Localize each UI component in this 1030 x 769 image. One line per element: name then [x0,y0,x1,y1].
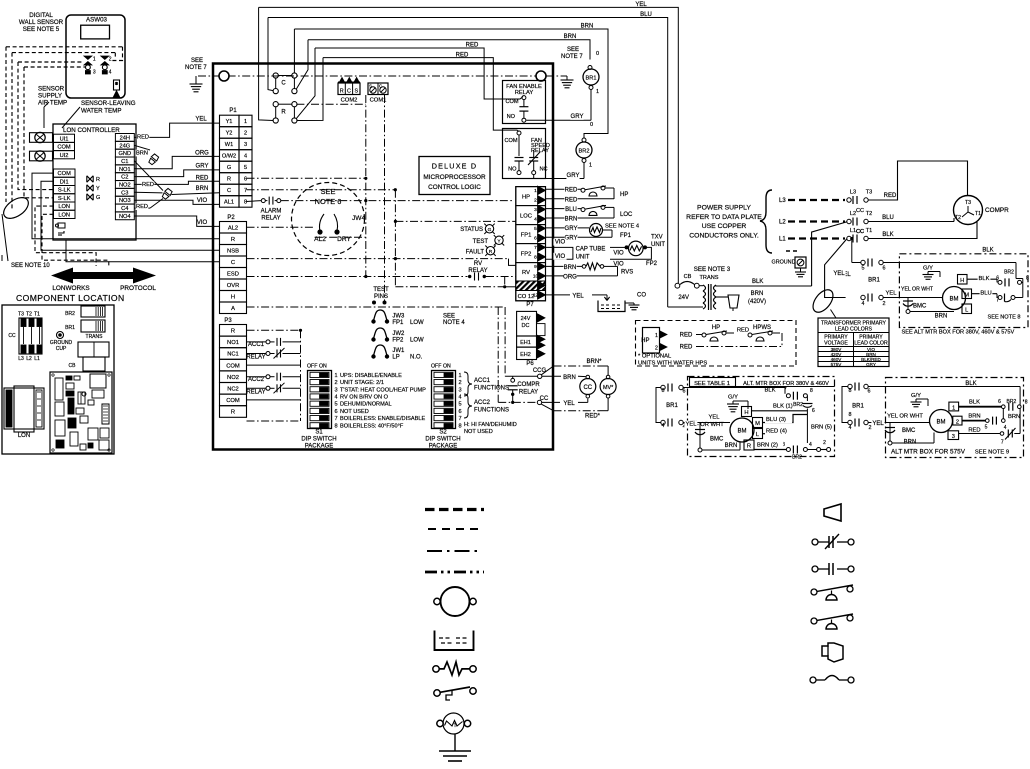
svg-text:6: 6 [534,236,537,242]
svg-text:BMC: BMC [710,436,724,442]
svg-text:FP2: FP2 [521,251,532,257]
svg-text:6: 6 [335,409,338,415]
svg-text:BRN: BRN [725,443,738,449]
svg-text:1: 1 [459,373,462,379]
svg-text:W1: W1 [225,142,233,148]
svg-text:Y2: Y2 [226,131,233,137]
svg-text:ACC2: ACC2 [474,400,491,406]
svg-text:RED: RED [565,197,578,203]
svg-text:RED: RED [196,175,209,181]
svg-text:P2: P2 [227,215,235,221]
svg-text:S-LK: S-LK [58,188,71,194]
svg-text:4: 4 [862,301,865,307]
svg-text:RED: RED [884,193,897,199]
svg-text:S: S [354,89,358,95]
svg-text:2: 2 [956,419,959,425]
svg-text:COM1: COM1 [370,98,387,104]
svg-text:YEL: YEL [195,117,207,123]
svg-text:GRY: GRY [571,114,584,120]
svg-text:DC: DC [522,323,530,329]
svg-text:NO4: NO4 [119,214,131,220]
svg-text:BR2: BR2 [793,402,803,408]
svg-text:ESD: ESD [227,272,239,278]
svg-text:2: 2 [883,301,886,307]
svg-text:R: R [231,329,235,335]
svg-text:YEL OR WHT: YEL OR WHT [901,287,934,293]
svg-text:4: 4 [244,154,247,160]
svg-text:M: M [964,292,969,298]
svg-text:AL2: AL2 [228,226,238,232]
svg-text:A: A [231,306,235,312]
svg-text:C: C [379,84,382,89]
svg-text:RED*: RED* [585,413,601,419]
svg-text:ALT. MTR BOX FOR 380V & 460V: ALT. MTR BOX FOR 380V & 460V [743,381,829,387]
svg-text:4: 4 [1004,425,1007,431]
svg-text:NO: NO [507,114,516,120]
svg-text:(420V): (420V) [748,299,766,305]
svg-text:CC: CC [583,385,592,391]
svg-text:LON: LON [58,204,70,210]
svg-text:CO: CO [637,293,646,299]
svg-text:3: 3 [952,434,955,440]
svg-text:LEAD COLOR: LEAD COLOR [854,341,888,347]
svg-text:BRN: BRN [565,216,578,222]
svg-text:JW1: JW1 [392,348,405,354]
svg-text:CC: CC [540,396,549,402]
svg-text:CB: CB [684,274,692,280]
svg-text:FAN ENABLE: FAN ENABLE [506,84,542,90]
svg-text:NO1: NO1 [227,340,239,346]
svg-text:P3: P3 [224,318,232,324]
svg-text:TEST: TEST [473,239,489,245]
svg-text:NC2: NC2 [227,387,239,393]
svg-text:C2: C2 [121,175,128,181]
svg-text:CONTROL LOGIC: CONTROL LOGIC [428,184,481,191]
svg-text:OVR: OVR [227,283,240,289]
svg-text:6: 6 [883,266,886,272]
svg-text:YEL: YEL [872,421,884,427]
svg-text:LOC: LOC [520,213,532,219]
svg-text:RED: RED [680,345,693,351]
svg-text:24V: 24V [521,316,531,322]
svg-text:BR2: BR2 [65,311,75,317]
svg-text:SEE NOTE 8: SEE NOTE 8 [988,315,1021,321]
svg-text:HP: HP [641,338,649,344]
svg-text:RED: RED [136,204,148,210]
svg-text:YEL: YEL [886,291,898,297]
svg-text:SEE: SEE [443,314,455,320]
svg-text:5: 5 [985,425,988,431]
svg-text:H: HI FAN/DEHUMID: H: HI FAN/DEHUMID [464,422,517,428]
svg-text:OFF: OFF [307,364,317,370]
svg-text:BMC: BMC [913,304,927,310]
svg-text:R: R [231,410,235,416]
svg-text:8: 8 [810,388,813,394]
svg-text:NSB: NSB [227,249,239,255]
svg-text:FAULT: FAULT [466,250,485,256]
svg-text:BLU: BLU [980,291,991,297]
svg-text:RED: RED [565,187,578,193]
svg-text:6: 6 [244,177,247,183]
svg-text:L1: L1 [779,237,786,243]
svg-text:6: 6 [459,409,462,415]
svg-text:5: 5 [459,402,462,408]
svg-text:S1: S1 [315,430,323,436]
svg-text:2: 2 [335,380,338,386]
svg-text:1: 1 [589,163,592,169]
svg-text:BM: BM [738,429,747,435]
svg-text:6: 6 [868,389,871,395]
svg-text:R: R [227,177,231,183]
svg-text:RELAY: RELAY [246,355,265,361]
svg-text:FP1: FP1 [521,232,532,238]
svg-text:4: 4 [534,217,537,223]
svg-text:C: C [347,89,351,95]
svg-text:LOC: LOC [620,212,633,218]
svg-text:H: H [231,295,235,301]
svg-text:RV: RV [474,261,482,267]
svg-text:FP2: FP2 [392,338,404,344]
svg-text:BR1: BR1 [666,403,678,409]
svg-text:LON: LON [18,433,30,439]
svg-text:BRN (2): BRN (2) [757,442,778,448]
svg-text:BLU (3): BLU (3) [766,417,786,423]
svg-text:GRY: GRY [866,362,876,367]
svg-text:BR1: BR1 [586,76,597,82]
svg-text:RV: RV [522,270,530,276]
svg-text:1: 1 [93,56,96,62]
svg-text:L3: L3 [18,356,24,362]
svg-text:T2: T2 [955,215,961,221]
svg-text:PACKAGE: PACKAGE [429,444,458,450]
svg-text:R: R [231,237,235,243]
svg-text:VIO: VIO [613,251,624,257]
svg-text:NO2: NO2 [227,375,239,381]
svg-text:5: 5 [335,402,338,408]
svg-text:COM: COM [57,145,71,151]
svg-text:24V: 24V [678,295,689,301]
svg-text:7: 7 [335,416,338,422]
svg-text:FP1: FP1 [392,320,404,326]
svg-text:8: 8 [459,423,462,429]
svg-text:DIP SWITCH: DIP SWITCH [425,437,460,443]
svg-text:C: C [227,188,231,194]
svg-text:BLK: BLK [752,279,763,285]
svg-text:R: R [340,89,344,95]
svg-text:RELAY: RELAY [519,390,538,396]
svg-text:NOT USED: NOT USED [464,429,493,435]
svg-text:AIR TEMP: AIR TEMP [38,100,67,107]
svg-text:SEE: SEE [321,187,336,196]
svg-text:LEAD COLORS: LEAD COLORS [835,327,872,333]
svg-text:VIO: VIO [555,240,566,246]
svg-text:COMPONENT LOCATION: COMPONENT LOCATION [16,293,125,303]
svg-text:2: 2 [244,131,247,137]
svg-text:COMPR: COMPR [985,207,1009,214]
svg-text:COM2: COM2 [341,98,358,104]
svg-text:L2: L2 [850,211,856,217]
svg-text:S-LK: S-LK [58,196,71,202]
svg-text:RED: RED [968,428,980,434]
svg-text:RED: RED [737,328,749,334]
svg-text:8: 8 [1026,276,1029,282]
svg-text:TRANS: TRANS [700,275,719,281]
svg-text:BM: BM [937,420,946,426]
svg-text:SENSOR: SENSOR [38,86,65,93]
svg-text:TXV: TXV [651,235,663,241]
svg-text:YEL OR WHT: YEL OR WHT [887,414,923,420]
svg-text:YEL: YEL [709,415,721,421]
svg-text:SEE ALT MTR BOX FOR 380V, 460V: SEE ALT MTR BOX FOR 380V, 460V & 575V [902,330,1015,336]
svg-text:UNIT: UNIT [651,242,665,248]
svg-text:NOTE 6: NOTE 6 [315,197,342,206]
svg-text:CB: CB [69,363,77,369]
svg-text:WALL SENSOR: WALL SENSOR [19,19,64,26]
svg-text:BRN: BRN [751,291,764,297]
svg-text:POWER SUPPLY: POWER SUPPLY [697,205,751,212]
svg-text:S2: S2 [439,430,447,436]
svg-text:SEE NOTE 10: SEE NOTE 10 [11,263,50,269]
svg-text:FUNCTIONS: FUNCTIONS [474,386,509,392]
svg-text:VIO: VIO [197,198,208,204]
svg-text:0: 0 [590,122,593,128]
svg-text:BRN: BRN [1008,414,1020,420]
svg-text:L: L [965,307,968,313]
svg-text:G: G [96,195,100,201]
svg-text:NOT USED: NOT USED [340,409,369,415]
svg-text:ON: ON [319,364,327,370]
svg-text:7: 7 [534,245,537,251]
svg-text:COM: COM [58,171,72,177]
svg-text:L3: L3 [779,198,786,204]
svg-text:5: 5 [534,226,537,232]
svg-text:SEE TABLE 1: SEE TABLE 1 [694,381,730,387]
svg-text:L2: L2 [779,220,786,226]
svg-text:RED (4): RED (4) [766,429,787,435]
svg-text:PINS: PINS [374,294,388,300]
svg-text:SENSOR-LEAVING: SENSOR-LEAVING [81,100,136,107]
svg-text:VIO: VIO [555,254,566,260]
svg-text:T1: T1 [975,211,981,217]
svg-text:ASW03: ASW03 [86,17,108,24]
svg-text:Y1: Y1 [226,119,233,125]
svg-text:NC1: NC1 [227,352,239,358]
svg-text:3: 3 [335,387,338,393]
svg-text:CUP: CUP [56,346,67,352]
svg-text:BOILERLESS: ENABLE/DISABLE: BOILERLESS: ENABLE/DISABLE [340,416,425,422]
svg-text:HP: HP [712,325,720,331]
svg-text:PACKAGE: PACKAGE [305,444,334,450]
svg-text:BOILERLESS: 40°F/50°F: BOILERLESS: 40°F/50°F [340,423,404,429]
svg-text:P6: P6 [526,361,534,367]
svg-text:YEL: YEL [686,421,698,427]
svg-text:NO: NO [508,167,517,173]
svg-text:CAP TUBE: CAP TUBE [576,247,606,253]
svg-text:7: 7 [1001,440,1004,446]
svg-text:3: 3 [244,142,247,148]
svg-text:8: 8 [849,412,852,418]
svg-text:NO2: NO2 [119,183,131,189]
svg-text:BRN: BRN [564,265,577,271]
svg-text:BR1: BR1 [868,278,880,284]
svg-text:ACC2: ACC2 [248,377,265,383]
svg-text:SEE: SEE [191,58,203,64]
svg-text:2: 2 [109,56,112,62]
svg-text:7: 7 [459,416,462,422]
svg-text:1: 1 [655,333,658,339]
svg-text:HP: HP [620,192,628,198]
svg-text:OFF: OFF [431,364,441,370]
svg-text:COMPR: COMPR [517,382,540,388]
svg-text:UI1: UI1 [60,136,69,142]
svg-text:UPS: DISABLE/ENABLE: UPS: DISABLE/ENABLE [340,373,402,379]
svg-text:Y: Y [96,186,100,192]
svg-text:7: 7 [244,188,247,194]
svg-text:RED: RED [142,182,154,188]
svg-text:SEE NOTE 5: SEE NOTE 5 [23,26,60,33]
svg-text:T3: T3 [965,200,971,206]
svg-text:2: 2 [459,380,462,386]
svg-text:BR1: BR1 [852,404,864,410]
svg-text:G: G [227,165,231,171]
svg-text:TRANS: TRANS [86,334,104,340]
svg-text:DELUXE D: DELUXE D [432,162,478,171]
svg-text:BRN: BRN [968,414,980,420]
svg-text:JW4: JW4 [352,215,366,222]
svg-text:7: 7 [784,387,787,393]
svg-text:GRY: GRY [196,164,209,170]
svg-text:L1: L1 [34,356,40,362]
svg-text:BMC: BMC [902,428,916,434]
svg-text:RELAY: RELAY [246,390,265,396]
svg-text:P1: P1 [229,108,237,114]
svg-text:LON CONTROLLER: LON CONTROLLER [63,127,120,134]
svg-text:GRY: GRY [565,226,578,232]
svg-text:R: R [96,177,100,183]
svg-text:24G: 24G [119,143,130,149]
svg-text:R: R [281,110,286,116]
svg-text:6: 6 [683,389,686,395]
svg-text:DI1: DI1 [60,179,69,185]
svg-text:8: 8 [534,255,537,261]
svg-text:1: 1 [596,89,599,95]
svg-text:DEHUMID/NORMAL: DEHUMID/NORMAL [340,402,392,408]
svg-text:SEE NOTE 9: SEE NOTE 9 [975,450,1009,456]
svg-text:RED: RED [680,333,693,339]
svg-text:4: 4 [459,395,462,401]
svg-text:COM: COM [226,363,240,369]
svg-text:RVS: RVS [621,269,633,275]
svg-text:BLK: BLK [765,388,776,394]
svg-text:BM: BM [950,297,959,303]
svg-text:UNIT STAGE: 2/1: UNIT STAGE: 2/1 [340,380,384,386]
svg-text:T1: T1 [34,312,40,318]
svg-text:ACC1: ACC1 [248,342,265,348]
svg-text:SUPPLY: SUPPLY [38,93,62,100]
svg-text:BR1: BR1 [65,325,75,331]
svg-text:EH1: EH1 [520,340,531,346]
svg-text:H: H [960,278,964,284]
svg-text:4: 4 [809,442,812,448]
svg-text:T3: T3 [18,312,24,318]
svg-text:STATUS: STATUS [460,227,483,233]
svg-text:G: G [488,227,492,233]
svg-text:BLK: BLK [882,232,893,238]
svg-text:YEL: YEL [572,293,584,299]
svg-text:T'STAT: HEAT COOL/HEAT PUMP: T'STAT: HEAT COOL/HEAT PUMP [340,387,426,393]
svg-text:RELAY: RELAY [261,216,280,222]
svg-text:WATER TEMP: WATER TEMP [81,108,121,115]
svg-text:LON: LON [58,212,70,218]
svg-text:GROUND: GROUND [772,260,796,266]
svg-text:CC: CC [856,208,864,214]
svg-text:MICROPROCESSOR: MICROPROCESSOR [423,174,486,181]
svg-text:NO1: NO1 [119,167,131,173]
svg-text:NOTE 4: NOTE 4 [443,320,465,326]
svg-text:CC: CC [8,333,16,339]
svg-text:1: 1 [335,373,338,379]
svg-text:FP1: FP1 [620,233,632,239]
svg-text:BR2: BR2 [579,149,590,155]
svg-text:LOW: LOW [410,320,424,326]
svg-text:LP: LP [392,355,399,361]
svg-text:R: R [747,444,751,450]
svg-text:BLU: BLU [882,215,894,221]
svg-text:C3: C3 [121,190,128,196]
svg-text:C: C [281,81,286,87]
svg-text:4: 4 [109,70,112,76]
svg-text:CC: CC [856,229,864,235]
svg-text:BLK (1): BLK (1) [773,404,793,410]
svg-text:NC: NC [540,167,548,173]
svg-text:C4: C4 [121,206,128,212]
svg-text:BLU: BLU [565,207,577,213]
svg-text:YEL: YEL [833,271,845,277]
svg-text:FUNCTIONS: FUNCTIONS [474,408,509,414]
svg-text:L2: L2 [26,356,32,362]
svg-text:BRN: BRN [196,186,209,192]
svg-text:ALARM: ALARM [261,209,282,215]
svg-text:2: 2 [869,425,872,431]
svg-text:9: 9 [534,264,537,270]
svg-text:UI2: UI2 [60,153,69,159]
svg-text:BR2: BR2 [1007,399,1017,405]
svg-text:BRN: BRN [136,150,148,156]
svg-text:MV*: MV* [603,385,614,391]
svg-text:GRY: GRY [567,173,580,179]
svg-text:ORG: ORG [195,151,209,157]
svg-text:3: 3 [534,207,537,213]
svg-text:C1: C1 [121,159,128,165]
svg-text:T2: T2 [26,312,32,318]
svg-text:C: C [231,260,235,266]
svg-text:BRN: BRN [935,314,948,320]
svg-text:USE COPPER: USE COPPER [702,223,747,230]
svg-text:BLK: BLK [979,276,990,282]
svg-text:H: H [744,410,748,416]
svg-text:ON: ON [443,364,451,370]
svg-text:P7: P7 [526,302,534,308]
svg-text:GND: GND [118,151,131,157]
svg-text:8: 8 [335,423,338,429]
svg-text:ALT MTR BOX FOR 575V: ALT MTR BOX FOR 575V [891,449,966,456]
svg-text:REFER TO DATA PLATE: REFER TO DATA PLATE [686,214,762,221]
svg-text:HPWS: HPWS [753,325,771,331]
svg-text:JW3: JW3 [392,314,405,320]
svg-text:O/W2: O/W2 [222,154,236,160]
svg-text:5: 5 [862,266,865,272]
svg-text:COM: COM [504,138,517,144]
